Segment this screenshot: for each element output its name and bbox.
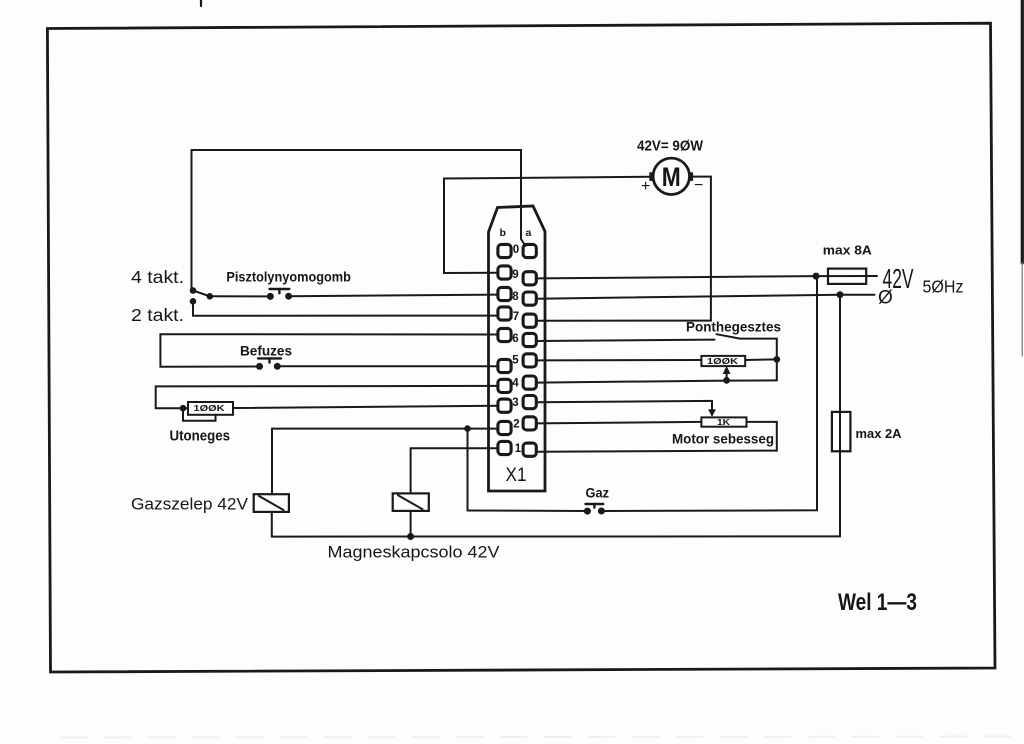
pin 3a — [523, 396, 536, 409]
svg-text:5ØHz: 5ØHz — [923, 277, 964, 297]
svg-text:4 takt.: 4 takt. — [131, 267, 184, 287]
svg-text:42V= 9ØW: 42V= 9ØW — [637, 139, 703, 155]
svg-text:max 2A: max 2A — [856, 426, 903, 441]
wire: R3 right down to pin 1a — [537, 422, 777, 452]
wire: Gaz right segment up to 42V node — [601, 276, 817, 511]
svg-text:1ØØK: 1ØØK — [194, 404, 225, 413]
wire: relay K1 bottom — [271, 512, 273, 537]
pushbutton Gaz contacts — [585, 509, 590, 514]
wire: down to relay K1 — [271, 429, 273, 495]
pin 4a — [523, 376, 536, 389]
pin 1a — [523, 443, 536, 456]
node junction relay K2 bottom — [408, 534, 413, 539]
svg-text:6: 6 — [512, 333, 518, 345]
svg-text:Wel 1—3: Wel 1—3 — [838, 589, 917, 616]
fuse F1 max 8A — [816, 275, 877, 277]
pin 0b — [498, 244, 511, 257]
svg-text:0: 0 — [513, 244, 519, 256]
wire: Gaz left segment — [468, 510, 588, 513]
wire: junction to R1 left terminal — [183, 407, 188, 409]
switch S1 4takt/2takt pivot — [191, 288, 196, 293]
svg-text:5: 5 — [512, 355, 519, 367]
node junction 0 — [838, 292, 843, 297]
wire: switch S2 to right corner — [740, 339, 777, 381]
wire: pin 5a to R2 — [537, 359, 702, 361]
svg-text:1K: 1K — [717, 418, 730, 427]
scan artifact right edge bar — [1021, 0, 1024, 263]
wire: bottom bus — [272, 535, 840, 537]
pin 7b — [498, 307, 511, 320]
wire: R2 right — [745, 358, 777, 361]
pin 6b — [498, 328, 511, 341]
pin 4b — [498, 379, 511, 392]
svg-text:X1: X1 — [506, 465, 527, 486]
wire: pin 6a to switch Ponthegesztes — [537, 340, 715, 341]
wire: pin 6b left loop — [160, 334, 498, 367]
switch S2 Ponthegesztes blade — [717, 334, 740, 338]
potentiometer R3 1K Motor sebesseg body — [701, 417, 746, 426]
wire: 4takt to pushbutton — [210, 295, 270, 297]
pin 0a — [523, 244, 536, 257]
svg-text:3: 3 — [512, 397, 518, 409]
wire: Gaz branch down — [467, 429, 469, 511]
wire: R1 to pin 3b — [233, 406, 498, 408]
wire: pin 9a to 42V node — [537, 276, 817, 278]
node junction 42V — [814, 274, 819, 279]
svg-text:1: 1 — [515, 443, 522, 455]
svg-text:Gaz: Gaz — [586, 486, 610, 501]
potentiometer R3 wiper arrow — [708, 409, 716, 417]
node junction Gaz branch — [465, 426, 470, 431]
wire: top loop from node at x1 top — [192, 150, 526, 246]
pin 6a — [523, 333, 536, 346]
wire: 2 takt to pin 7b — [193, 315, 498, 317]
svg-text:2 takt.: 2 takt. — [131, 305, 184, 325]
pin 3b — [498, 399, 511, 412]
potentiometer R2 100K Ponthegesztes body — [701, 356, 745, 366]
connector X1 pins column a — [523, 244, 536, 456]
pin 1b — [498, 441, 511, 454]
connector X1 pins column b — [498, 244, 511, 454]
motor M1 body — [653, 158, 689, 194]
svg-text:7: 7 — [513, 311, 519, 323]
svg-text:Befuzes: Befuzes — [240, 343, 292, 359]
scan artifact top tick — [200, 0, 202, 6]
svg-text:4: 4 — [512, 378, 519, 390]
wire: left vertical to switch S1 — [191, 150, 193, 289]
potentiometer R2 wiper arrow — [726, 369, 728, 380]
pushbutton Befuzes actuator — [258, 357, 281, 359]
svg-text:Gazszelep 42V: Gazszelep 42V — [131, 495, 249, 514]
wire: pin 8a to 0 node — [537, 295, 841, 299]
fuse F2 max 2A — [832, 412, 851, 451]
wire: pin 4a to wiper line — [537, 380, 777, 382]
wire: vertical through fuse F2 — [839, 295, 841, 537]
svg-text:Motor sebesseg: Motor sebesseg — [672, 432, 774, 447]
scan artifact bottom streak — [60, 737, 1010, 738]
pin 8b — [498, 287, 511, 300]
svg-text:a: a — [526, 227, 532, 239]
pin 7a — [523, 314, 536, 327]
wire: pin 9b loop to motor plus — [444, 177, 649, 273]
wire: pin 3a to R3 wiper — [537, 401, 713, 409]
svg-text:−: − — [694, 177, 703, 194]
pin 2a — [523, 417, 536, 430]
switch S1 contact 2 takt — [191, 299, 196, 304]
potentiometer R1 Utoneges 100K body — [188, 402, 233, 415]
svg-text:Pisztolynyomogomb: Pisztolynyomogomb — [226, 269, 351, 285]
pin 5a — [523, 354, 536, 367]
pin 9a — [523, 272, 536, 285]
switch S1 contact 4 takt — [208, 294, 213, 299]
pushbutton Pisztolynyomogomb contacts — [268, 294, 273, 299]
svg-text:Utoneges: Utoneges — [170, 429, 231, 445]
pushbutton Befuzes contacts — [257, 364, 262, 369]
node junction R2 wiper — [724, 378, 729, 383]
wire: pin 2a to R3 left — [537, 422, 702, 424]
wire: relay K2 top to pin 1b — [411, 448, 498, 493]
svg-text:Ponthegesztes: Ponthegesztes — [686, 319, 781, 335]
svg-text:M: M — [662, 162, 681, 192]
node junction pot R2 right — [774, 357, 779, 362]
wire: relay K2 bottom — [410, 511, 412, 537]
svg-text:8: 8 — [512, 291, 519, 303]
motor M1 right terminal — [689, 172, 694, 181]
wire: pin 2b left to relay K1 — [272, 428, 498, 430]
svg-text:9: 9 — [512, 269, 518, 281]
pushbutton Pisztolynyomogomb actuator — [270, 288, 290, 290]
motor M1 left terminal — [649, 172, 654, 181]
connector X1 body — [489, 206, 546, 491]
wire: Befuzes to pin 5b — [277, 365, 498, 367]
relay K2 Magneskapcsolo coil — [393, 493, 429, 511]
pin 5b — [498, 359, 511, 372]
svg-text:b: b — [500, 227, 506, 239]
svg-text:2: 2 — [513, 419, 519, 431]
relay K1 Gazszelep coil — [254, 494, 289, 512]
svg-text:max 8A: max 8A — [823, 243, 873, 258]
svg-text:Ø: Ø — [878, 288, 893, 309]
wire: motor minus down to pin 7a — [537, 177, 711, 321]
wire: pushbutton to pin 8b — [289, 295, 498, 297]
svg-text:Magneskapcsolo 42V: Magneskapcsolo 42V — [328, 543, 501, 562]
pin 2b — [498, 421, 511, 434]
potentiometer R1 wiper strap — [183, 408, 216, 421]
svg-text:1ØØK: 1ØØK — [707, 357, 738, 366]
pushbutton Gaz actuator — [586, 503, 604, 505]
wire: pin 4b left loop — [156, 386, 498, 408]
svg-text:+: + — [641, 178, 650, 195]
pin 8a — [523, 292, 536, 305]
pin 9b — [498, 266, 511, 279]
node junction Utoneges left — [181, 406, 186, 411]
switch S1 blade — [193, 291, 210, 297]
